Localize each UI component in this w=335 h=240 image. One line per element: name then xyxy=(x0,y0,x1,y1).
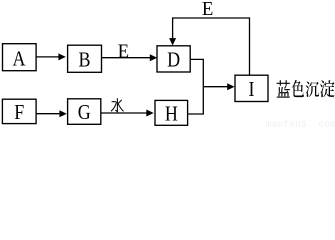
svg-text:E: E xyxy=(118,41,129,63)
svg-text:H: H xyxy=(165,102,178,126)
svg-text:D: D xyxy=(167,48,180,72)
svg-text:F: F xyxy=(14,101,24,125)
svg-text:G: G xyxy=(78,101,91,125)
svg-text:E: E xyxy=(202,0,213,20)
svg-text:I: I xyxy=(249,78,255,102)
svg-text:manfen5. com: manfen5. com xyxy=(266,119,335,129)
svg-text:A: A xyxy=(12,47,26,71)
svg-text:B: B xyxy=(79,48,91,72)
